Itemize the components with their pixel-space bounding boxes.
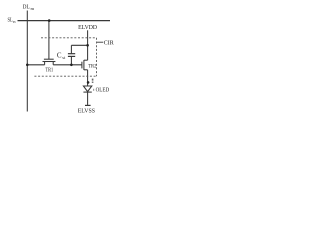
svg-text:DL: DL: [23, 4, 30, 11]
svg-text:C: C: [57, 52, 62, 60]
svg-text:ELVDD: ELVDD: [78, 24, 97, 31]
svg-text:ELVSS: ELVSS: [78, 108, 96, 115]
svg-text:TR1: TR1: [46, 66, 54, 73]
svg-text:m: m: [31, 6, 35, 11]
svg-text:TR2: TR2: [88, 64, 96, 70]
svg-text:OLED: OLED: [96, 86, 110, 93]
svg-text:CIR: CIR: [104, 39, 115, 46]
